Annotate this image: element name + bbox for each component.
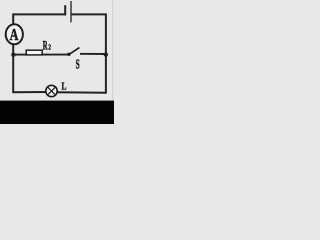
wire bottom left segment [12,91,46,93]
svg-text:L: L [62,82,67,93]
lamp L circle [46,85,57,96]
wire right vertical lower [105,54,107,92]
wire middle branch between resistor and switch [42,54,68,56]
wire middle branch right segment [80,53,106,55]
battery short plate (negative) [64,5,66,15]
black censor bar bottom [0,101,114,124]
node (junction dot) left [11,53,15,57]
faint scan edge right [112,0,113,101]
wire bottom right segment [57,91,107,94]
wire left vertical below ammeter [12,44,14,92]
resistor R2 [26,50,42,55]
svg-text:2: 2 [48,43,51,52]
switch S lever [69,48,79,55]
battery long plate (positive) [70,1,72,22]
switch S contact dot [67,53,70,56]
wire top-left (battery left lead) [13,14,64,24]
wire middle branch left segment [13,54,26,56]
svg-text:S: S [76,56,80,71]
background [0,0,114,124]
ammeter A1 [6,24,23,44]
lamp L cross [48,87,56,95]
svg-text:A: A [10,25,19,44]
node (junction dot) right [104,52,108,56]
wire top-right (battery right lead) [72,14,106,54]
